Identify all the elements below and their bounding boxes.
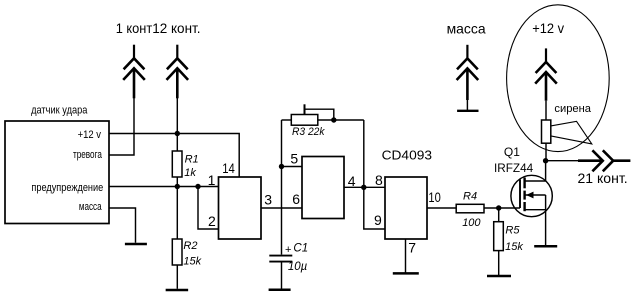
wire: vertical net R3-left / pin5 / C1 [281,120,283,255]
svg-text:R5: R5 [505,224,520,236]
resistor R2 [172,187,182,289]
svg-text:15k: 15k [183,255,201,267]
svg-text:14: 14 [222,160,235,176]
svg-text:1: 1 [208,172,216,188]
svg-text:R1: R1 [185,153,199,165]
svg-text:1k: 1k [184,167,196,179]
transistor Q1 MOSFET [511,161,552,245]
wire: drain node to 21 конт connector [546,160,603,162]
wire: pin 7 to ground [405,239,407,273]
svg-text:+12 v: +12 v [78,129,102,141]
svg-text:масса: масса [447,21,486,37]
svg-text:масса: масса [79,201,102,213]
gate U1b (pins 5,6,4) [302,157,344,219]
svg-text:+12 v: +12 v [532,20,564,36]
shock sensor block датчик удара [5,121,109,224]
svg-text:21 конт.: 21 конт. [578,170,628,186]
label R1 1k [184,153,198,179]
ground (R2) [166,289,189,292]
svg-text:R3 22k: R3 22k [292,126,325,138]
label R5 15k [505,224,523,253]
svg-text:датчик удара: датчик удара [31,104,88,116]
junction dot R1 bottom [175,184,180,189]
svg-text:сирена: сирена [554,103,591,115]
ellipse siren group outline [507,5,610,152]
junction dot R3 wiper [331,117,336,122]
resistor R5 [494,208,504,275]
svg-text:Q1: Q1 [504,145,520,159]
svg-text:15k: 15k [505,241,523,253]
ground (C1) [269,289,291,292]
svg-text:12 конт.: 12 конт. [152,20,200,36]
svg-text:тревога: тревога [73,149,103,161]
junction dot pin4/8/9 [361,185,366,190]
svg-text:9: 9 [374,212,382,228]
resistor R1 [172,134,182,187]
wire: branch to pin 2 [198,187,219,230]
label R4 100 [462,190,481,228]
wire: siren - lead to drain node [545,143,547,161]
svg-text:7: 7 [408,240,416,256]
connector 12 конт symbol [167,45,189,99]
connector 1 конт symbol [123,45,145,99]
svg-text:10µ: 10µ [288,261,308,273]
label R2 15k [183,240,201,267]
gate U1a (pins 1,2,3,14) [219,177,262,239]
wire: pin 3 to pin 6 [261,207,302,209]
ground (R5) [487,275,511,278]
junction dot pin 5 [279,164,284,169]
svg-text:100: 100 [462,217,481,229]
ground (Q1 source) [534,245,557,248]
svg-text:10: 10 [428,189,441,205]
wire: pin 4 to pin 8 [344,186,385,188]
wire: siren + lead [545,101,547,120]
svg-text:2: 2 [208,213,216,229]
gate U1c (pins 8,9,10,7) [385,177,427,239]
connector 21 конт symbol [592,150,630,171]
svg-text:6: 6 [292,191,300,207]
wire: pin 10 to R4 [427,207,456,209]
svg-text:IRFZ44: IRFZ44 [494,161,534,175]
svg-text:1 конт: 1 конт [116,20,153,36]
connector масса symbol [457,45,479,110]
label + C1 10µ [285,243,308,273]
svg-text:8: 8 [375,172,383,188]
wire: pin 5 stub [282,166,303,168]
svg-text:+: + [285,244,291,256]
svg-text:предупреждение: предупреждение [31,182,103,194]
svg-text:5: 5 [290,151,298,167]
wire: +12v rail from sensor to pin14 [109,134,239,178]
wire: connector 12 конт down to +12v rail [176,97,178,134]
wire: branch down to pin 9 [364,187,385,229]
svg-text:C1: C1 [293,243,308,255]
capacitor C1 [269,256,292,289]
siren body [542,120,551,143]
trimmer R3 [282,104,364,125]
ground bar (масса connector) [457,110,478,112]
junction dot gate/R5 [496,205,501,210]
connector +12v siren symbol [535,48,557,100]
wire: предупреждение net to pin 1 [109,186,219,188]
junction dot drain node [543,158,548,163]
junction dot pin1/pin2 branch [195,184,200,189]
siren horn [551,121,592,144]
svg-text:R2: R2 [183,240,197,252]
resistor R4 [456,204,520,213]
junction dot +12v/12конт [175,131,180,136]
svg-text:CD4093: CD4093 [382,148,432,163]
svg-text:R4: R4 [463,190,477,202]
ground (sensor масса) [125,243,147,246]
wire: тревога to connector 1 конт [109,97,134,155]
wire: sensor масса to ground [109,208,136,243]
svg-text:3: 3 [264,192,272,208]
ground (pin 7) [393,272,419,275]
wire: R3 right down to pin4 net [363,120,365,187]
